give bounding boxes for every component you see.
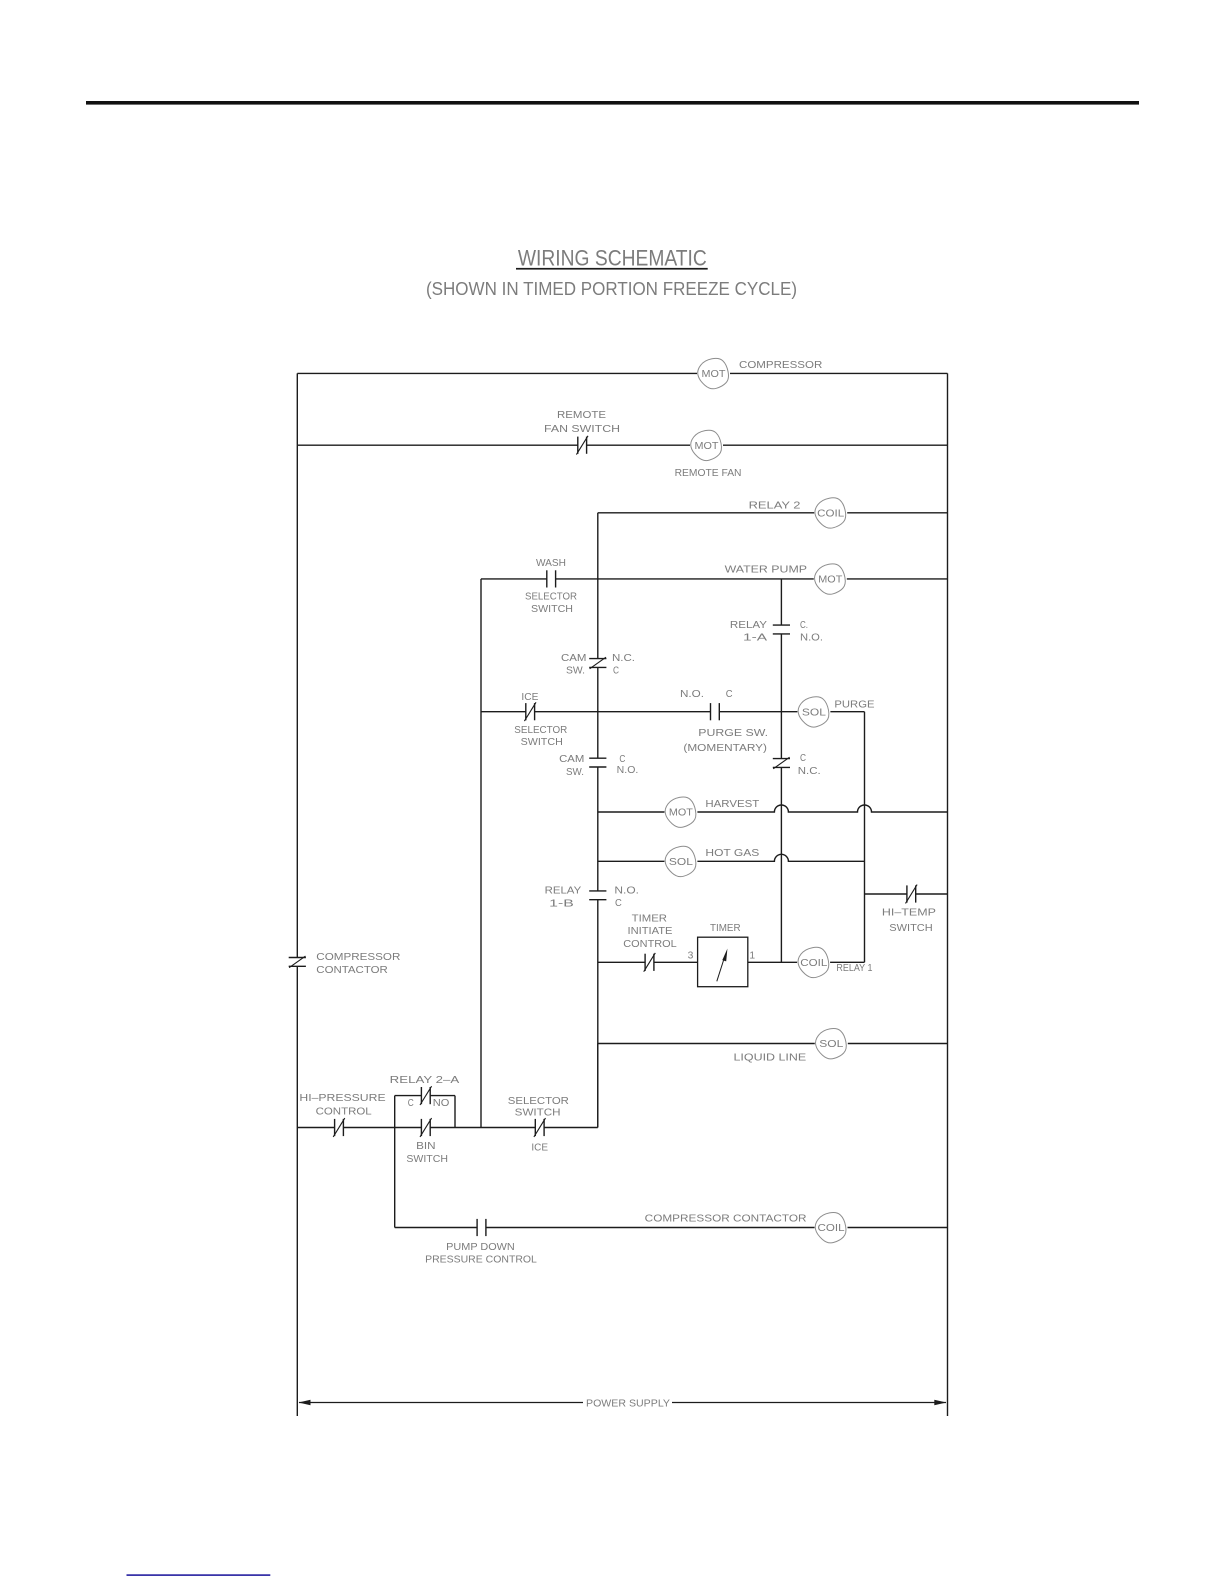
svg-text:SWITCH: SWITCH	[889, 923, 932, 934]
svg-text:HOT GAS: HOT GAS	[705, 848, 759, 859]
svg-text:PRESSURE CONTROL: PRESSURE CONTROL	[425, 1254, 537, 1265]
footer blue rule	[127, 1574, 271, 1576]
switch bin switch	[420, 1118, 432, 1137]
wire water-pump branch v c	[780, 767, 782, 962]
wire contactor rail a	[395, 1227, 477, 1229]
wire harvest rail a	[598, 811, 665, 813]
svg-text:REMOTE: REMOTE	[557, 410, 606, 421]
wire hot-gas rail b	[697, 854, 864, 861]
wire ice rail d	[830, 711, 864, 713]
svg-text:MOT: MOT	[818, 575, 842, 586]
wire ice rail b	[535, 711, 711, 713]
wire main bus to liquid line	[597, 1044, 599, 1128]
svg-text:3: 3	[688, 950, 694, 961]
svg-text:REMOTE FAN: REMOTE FAN	[675, 468, 742, 479]
svg-text:CAM: CAM	[561, 653, 587, 664]
svg-text:C: C	[613, 666, 619, 677]
wire purge branch vertical	[864, 712, 866, 963]
coil COIL compressor contactor	[815, 1213, 846, 1243]
wire remote-fan rail b	[587, 444, 690, 446]
wire hi-pressure rail a	[297, 1127, 334, 1129]
wire timer rail d	[830, 961, 864, 963]
svg-text:MOT: MOT	[702, 369, 726, 380]
page top rule	[86, 101, 1139, 105]
svg-text:HI–TEMP: HI–TEMP	[882, 908, 936, 919]
motor MOT compressor	[698, 358, 729, 388]
wire relay-2A top b	[430, 1095, 455, 1097]
motor MOT harvest	[665, 797, 696, 827]
wire liquid-line rail a	[598, 1043, 815, 1045]
wire wash rail a	[481, 578, 547, 580]
switch timer initiate control	[644, 953, 656, 972]
power supply arrow right	[672, 1400, 946, 1406]
svg-text:RELAY: RELAY	[730, 620, 767, 631]
svg-text:COIL: COIL	[817, 508, 845, 519]
wire water-pump branch v a	[780, 579, 782, 625]
switch remote fan switch	[576, 436, 588, 455]
wire remote-fan rail a	[297, 444, 578, 446]
svg-text:COIL: COIL	[800, 958, 828, 969]
wire main bus v b	[597, 667, 599, 758]
svg-text:RELAY 2–A: RELAY 2–A	[390, 1075, 460, 1086]
switch ice selector switch	[524, 702, 536, 721]
svg-text:N.O.: N.O.	[680, 689, 704, 700]
svg-text:PUMP DOWN: PUMP DOWN	[446, 1242, 515, 1253]
svg-text:LIQUID LINE: LIQUID LINE	[734, 1052, 807, 1063]
switch hi-temp switch	[906, 885, 918, 904]
wire contactor rail c	[848, 1227, 948, 1229]
svg-text:SW.: SW.	[566, 767, 584, 778]
contact cam switch 1	[589, 657, 606, 669]
coil COIL relay 1	[798, 947, 829, 977]
switch ice selector (lower)	[534, 1118, 546, 1137]
wire hot-gas rail a	[598, 860, 665, 862]
wire relay-2 rail a	[598, 512, 814, 514]
svg-text:ICE: ICE	[521, 692, 538, 703]
svg-text:COMPRESSOR CONTACTOR: COMPRESSOR CONTACTOR	[645, 1214, 807, 1225]
svg-text:SW.: SW.	[566, 666, 585, 677]
svg-text:SOL: SOL	[802, 707, 827, 718]
svg-text:HI–PRESSURE: HI–PRESSURE	[299, 1093, 385, 1104]
svg-text:SWITCH: SWITCH	[531, 604, 573, 615]
wire ice rail c	[719, 711, 797, 713]
wire relay-2A right leg	[454, 1096, 456, 1128]
wire top rail right	[730, 372, 948, 374]
wire timer rail c	[748, 961, 797, 963]
timer pointer	[717, 949, 728, 982]
timer box U1	[698, 937, 748, 987]
svg-text:POWER SUPPLY: POWER SUPPLY	[586, 1399, 670, 1410]
svg-text:C: C	[615, 898, 622, 909]
svg-text:SELECTOR: SELECTOR	[525, 592, 577, 603]
wire pump-down branch vertical	[394, 1128, 396, 1228]
svg-text:N.O.: N.O.	[800, 633, 823, 644]
svg-text:CAM: CAM	[559, 754, 584, 765]
svg-text:1: 1	[749, 950, 755, 961]
svg-text:TIMER: TIMER	[632, 914, 667, 925]
svg-text:SOL: SOL	[819, 1039, 844, 1050]
wire selector bus vertical	[480, 579, 482, 1128]
svg-text:C: C	[800, 753, 806, 764]
wire relay-2 rail b	[847, 512, 947, 514]
svg-text:SELECTOR: SELECTOR	[508, 1096, 569, 1107]
svg-text:NO: NO	[433, 1098, 450, 1109]
coil COIL relay 2	[815, 498, 846, 528]
solenoid SOL purge	[798, 697, 829, 727]
contact relay 1-B	[589, 891, 606, 900]
wire hi-temp rail a	[865, 893, 907, 895]
svg-text:WASH: WASH	[536, 558, 566, 569]
svg-text:N.O.: N.O.	[617, 765, 639, 776]
contact relay 1-A	[773, 625, 790, 634]
switch purge switch pole 1	[711, 703, 720, 720]
svg-text:C: C	[619, 754, 625, 765]
solenoid SOL liquid line	[816, 1029, 847, 1059]
contact purge switch pole 2	[773, 757, 790, 769]
svg-text:TIMER: TIMER	[710, 923, 741, 934]
wire main bus v c	[597, 767, 599, 891]
contact cam switch 2	[589, 758, 606, 767]
svg-text:SOL: SOL	[669, 857, 694, 868]
svg-text:COMPRESSOR: COMPRESSOR	[739, 360, 822, 371]
contact relay 2-A	[420, 1086, 432, 1105]
solenoid SOL hot gas	[665, 846, 696, 876]
svg-text:SWITCH: SWITCH	[515, 1108, 561, 1119]
svg-text:1-B: 1-B	[549, 899, 574, 910]
wire top rail left	[297, 372, 697, 374]
wire ice rail a	[481, 711, 526, 713]
power supply arrow left	[299, 1400, 584, 1406]
svg-text:1-A: 1-A	[743, 633, 767, 644]
svg-text:COMPRESSOR: COMPRESSOR	[316, 952, 400, 963]
svg-text:ICE: ICE	[531, 1142, 548, 1153]
svg-text:C: C	[726, 689, 733, 700]
wire hi-pressure rail c	[430, 1127, 535, 1129]
svg-text:FAN SWITCH: FAN SWITCH	[544, 424, 620, 435]
wire relay-2A top a	[395, 1095, 422, 1097]
svg-text:CONTACTOR: CONTACTOR	[316, 965, 388, 976]
wire main bus v a	[597, 513, 599, 659]
wire left rail (lower)	[296, 966, 298, 1416]
svg-text:MOT: MOT	[695, 441, 719, 452]
svg-text:SWITCH: SWITCH	[521, 737, 563, 748]
switch wash selector switch	[547, 570, 556, 587]
svg-text:N.C.: N.C.	[612, 653, 635, 664]
wire contactor rail b	[486, 1227, 815, 1229]
wire liquid-line rail b	[848, 1043, 948, 1045]
svg-text:CONTROL: CONTROL	[316, 1107, 372, 1118]
wire wash rail c	[847, 578, 948, 580]
switch pump down pressure control	[477, 1219, 486, 1236]
svg-text:C: C	[408, 1098, 414, 1109]
svg-text:COIL: COIL	[818, 1223, 846, 1234]
svg-text:MOT: MOT	[669, 808, 693, 819]
title underline	[516, 268, 708, 270]
svg-text:C.: C.	[800, 620, 808, 631]
wire relay-2A left leg	[394, 1096, 396, 1128]
wire harvest rail b	[697, 805, 947, 812]
svg-text:N.O.: N.O.	[614, 885, 639, 896]
svg-text:(SHOWN IN TIMED PORTION FR: (SHOWN IN TIMED PORTION FREEZE CYCLE)	[426, 279, 797, 299]
wire hi-pressure rail b	[343, 1127, 421, 1129]
svg-text:HARVEST: HARVEST	[705, 799, 760, 810]
contact compressor contactor	[289, 956, 306, 968]
wire timer rail a	[598, 961, 645, 963]
svg-text:WATER PUMP: WATER PUMP	[725, 565, 808, 576]
svg-text:RELAY 2: RELAY 2	[749, 501, 801, 512]
wire remote-fan rail c	[723, 444, 948, 446]
svg-text:N.C.: N.C.	[798, 766, 821, 777]
svg-text:BIN: BIN	[416, 1141, 436, 1152]
wire hi-temp rail b	[916, 893, 948, 895]
wire timer rail b	[654, 961, 698, 963]
svg-text:PURGE SW.: PURGE SW.	[698, 728, 768, 739]
wire hi-pressure rail d	[544, 1127, 598, 1129]
svg-text:PURGE: PURGE	[834, 700, 874, 711]
wire main bus v d	[597, 900, 599, 1128]
motor MOT water pump	[815, 564, 846, 594]
wire left rail (upper)	[296, 373, 298, 957]
svg-text:WIRING SCHEMATIC: WIRING SCHEMATIC	[518, 245, 707, 270]
svg-text:SWITCH: SWITCH	[406, 1154, 448, 1165]
wire water-pump branch v b	[780, 634, 782, 759]
svg-text:RELAY: RELAY	[545, 885, 582, 896]
motor MOT remote fan	[691, 430, 722, 460]
svg-text:SELECTOR: SELECTOR	[514, 725, 567, 736]
wire right rail	[947, 373, 949, 1416]
wire wash rail b	[556, 578, 814, 580]
svg-text:(MOMENTARY): (MOMENTARY)	[683, 743, 767, 754]
svg-text:INITIATE: INITIATE	[628, 926, 673, 937]
svg-text:RELAY 1: RELAY 1	[836, 963, 872, 974]
switch hi-pressure control	[333, 1118, 345, 1137]
svg-text:CONTROL: CONTROL	[623, 939, 677, 950]
